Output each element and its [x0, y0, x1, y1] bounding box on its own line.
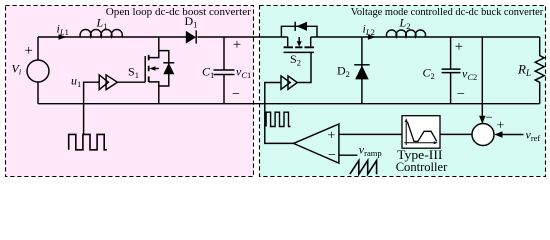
S1 body diode wires — [159, 51, 169, 86]
transistor S1 drain wire — [149, 37, 159, 58]
transistor S2 drain stub — [287, 37, 289, 46]
inductor L2 — [386, 30, 425, 37]
boost converter dashed box — [6, 6, 254, 177]
square wave source u1 — [69, 134, 107, 149]
resistor RL — [535, 37, 544, 104]
current arrow iL2 — [368, 34, 376, 40]
transistor S1 channel segments — [148, 55, 150, 82]
svg-text:+: + — [455, 39, 463, 55]
buck rail after S2 — [311, 36, 540, 38]
svg-text:+: + — [233, 37, 241, 53]
svg-text:+: + — [327, 128, 335, 143]
transistor S2 gate bar — [284, 51, 314, 53]
transistor S1 source wire — [149, 82, 159, 104]
transistor S1 gate bar — [144, 56, 146, 82]
comparator — [294, 124, 339, 163]
transistor S2 channel segments — [284, 46, 314, 48]
buck converter dashed box — [260, 6, 546, 177]
wire buffer to gate — [117, 81, 145, 83]
current arrow iL1 — [59, 34, 67, 40]
svg-text:−: − — [328, 148, 336, 163]
top rail wire D1 to S2 drain — [198, 36, 288, 38]
inductor L1 — [80, 30, 122, 37]
diode D1 — [186, 31, 196, 44]
controller response curve — [407, 122, 436, 141]
svg-text:Voltage mode controlled dc-dc: Voltage mode controlled dc-dc buck conve… — [351, 6, 544, 18]
summing junction — [472, 124, 494, 146]
svg-text:−: − — [485, 110, 492, 125]
gate driver buffer 4 — [288, 76, 297, 89]
wire u1 input — [84, 82, 100, 134]
S2 body diode loop wire — [281, 26, 317, 37]
S1 body diode — [163, 63, 174, 74]
svg-text:Open loop dc-dc boost converte: Open loop dc-dc boost converter — [106, 6, 251, 18]
gate driver buffer 2 — [106, 75, 117, 90]
feedback sense wire with arrow — [481, 37, 483, 117]
svg-text:Controller: Controller — [396, 159, 448, 174]
pwm waveform annotation — [266, 112, 290, 126]
controller axes — [404, 122, 434, 146]
transistor S2 body arrow — [298, 37, 300, 42]
capacitor C1 — [214, 37, 235, 104]
gate driver buffer 3 — [281, 76, 290, 89]
top rail wire (boost) — [38, 36, 186, 38]
wire comparator output to buffer — [265, 83, 294, 144]
S2 body diode — [297, 22, 308, 31]
capacitor C2 — [442, 37, 461, 104]
wire comparator minus stub — [339, 154, 358, 156]
sawtooth waveform — [350, 161, 377, 175]
wire comparator plus input — [339, 133, 402, 135]
transistor S1 body arrow — [154, 68, 159, 70]
diode D2 — [355, 65, 369, 79]
voltage source Vi — [27, 60, 49, 82]
S2 gate wire — [297, 52, 311, 82]
svg-text:−: − — [232, 87, 240, 102]
vref wire with arrow — [502, 134, 524, 136]
svg-text:+: + — [25, 43, 33, 59]
gate driver buffer 1 — [99, 75, 108, 90]
Type-III controller box — [402, 116, 440, 149]
svg-text:+: + — [497, 118, 505, 133]
diode D2 wire — [361, 37, 363, 104]
bottom rail wire — [38, 103, 540, 105]
svg-text:−: − — [457, 87, 465, 102]
wire controller to summer — [440, 133, 472, 135]
transistor S2 source stub — [310, 37, 312, 46]
source Vi wires — [37, 37, 39, 104]
